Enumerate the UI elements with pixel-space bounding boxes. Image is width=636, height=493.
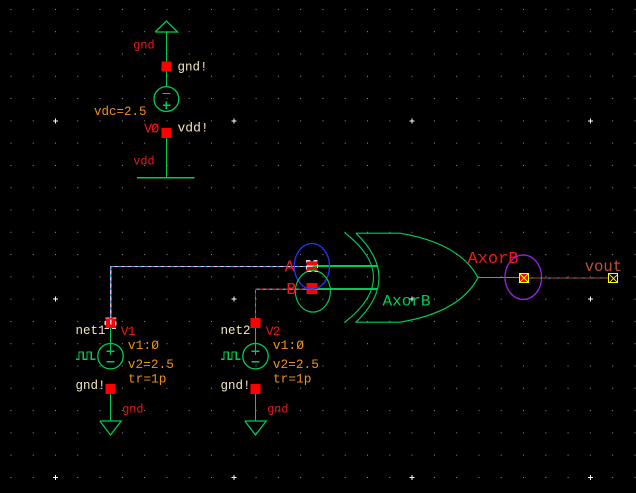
pin gnd! of V1 xyxy=(106,384,116,394)
xor gate body xyxy=(356,233,478,322)
pin net2 of V2 xyxy=(251,318,261,328)
V0 plus sign xyxy=(163,102,171,109)
svg-text:A: A xyxy=(285,259,296,278)
voltage source V1 circle xyxy=(98,344,123,369)
pin B (red square) xyxy=(307,283,318,294)
svg-text:gnd!: gnd! xyxy=(76,379,106,393)
purple ellipse around output pin xyxy=(505,255,542,299)
svg-text:vdd: vdd xyxy=(133,154,154,168)
wire V0 to vdd rail xyxy=(165,138,167,178)
svg-text:v2=2.5: v2=2.5 xyxy=(273,357,319,372)
svg-text:AxorB: AxorB xyxy=(468,250,519,269)
port vout (output pin symbol) xyxy=(609,274,618,283)
wire V2 to ground xyxy=(255,394,257,421)
wire gnd symbol to gnd! pin xyxy=(165,32,167,62)
output pin of gate (selected) xyxy=(519,273,529,283)
wire pin to V0 circle xyxy=(165,72,167,87)
V1 minus sign xyxy=(106,361,114,363)
svg-text:AxorB: AxorB xyxy=(383,293,431,311)
wire input stub B xyxy=(307,288,378,290)
V1 plus sign xyxy=(107,347,115,355)
V1 pulse waveform glyph xyxy=(76,352,96,359)
pin A (red square) xyxy=(307,261,318,272)
svg-text:net2: net2 xyxy=(221,324,251,338)
svg-text:vdd!: vdd! xyxy=(178,121,209,136)
svg-text:tr=1p: tr=1p xyxy=(128,371,166,386)
pin net1 of V1 (selected) xyxy=(105,318,116,329)
V2 pulse waveform glyph xyxy=(221,352,241,359)
wire output stub xyxy=(478,277,520,279)
V0 minus sign xyxy=(162,93,170,95)
gnd symbol (top, pointing up) xyxy=(155,21,177,32)
svg-text:gnd!: gnd! xyxy=(178,61,208,75)
svg-text:V1: V1 xyxy=(121,324,136,339)
wire pin to V2 circle xyxy=(255,328,257,347)
xor gate back arc xyxy=(345,233,374,323)
svg-text:vdc=2.5: vdc=2.5 xyxy=(94,105,147,119)
svg-text:B: B xyxy=(286,281,296,300)
V2 plus sign xyxy=(252,347,260,355)
voltage source V0 circle xyxy=(154,87,179,112)
wire V1 to ground xyxy=(110,394,112,421)
pin A selection highlight (white dashes) xyxy=(307,261,318,272)
svg-text:gnd: gnd xyxy=(122,402,143,416)
svg-text:tr=1p: tr=1p xyxy=(273,371,311,386)
wire net1 vertical xyxy=(110,267,112,319)
major grid crosses xyxy=(53,118,593,480)
blue ellipse around A pin xyxy=(294,243,329,289)
svg-text:V2: V2 xyxy=(266,324,280,339)
svg-text:v1:Ø: v1:Ø xyxy=(273,338,304,353)
wire net2 horizontal xyxy=(256,288,308,290)
svg-text:gnd: gnd xyxy=(133,38,154,52)
vdd rail bar xyxy=(137,177,194,179)
wire net1 horizontal xyxy=(111,266,307,268)
ground symbol V1 xyxy=(100,421,121,435)
wire pin to V1 circle xyxy=(110,328,112,347)
svg-text:gnd: gnd xyxy=(267,402,288,416)
svg-text:v1:Ø: v1:Ø xyxy=(128,338,159,353)
svg-text:v2=2.5: v2=2.5 xyxy=(128,357,174,372)
wire input stub A xyxy=(307,265,378,267)
pin vdd! of V0 xyxy=(161,128,171,138)
wire net2 vertical xyxy=(255,289,257,318)
svg-text:net1: net1 xyxy=(76,324,106,338)
pin gnd! of V0 xyxy=(161,62,171,72)
svg-text:VØ: VØ xyxy=(144,122,159,137)
svg-text:gnd!: gnd! xyxy=(221,379,251,393)
V2 minus sign xyxy=(251,361,259,363)
green ellipse around B pin xyxy=(295,271,330,313)
wire output dashed (to vout) xyxy=(529,277,608,279)
ground symbol V2 xyxy=(245,421,266,435)
pin gnd! of V2 xyxy=(251,384,261,394)
voltage source V2 circle xyxy=(243,344,268,369)
